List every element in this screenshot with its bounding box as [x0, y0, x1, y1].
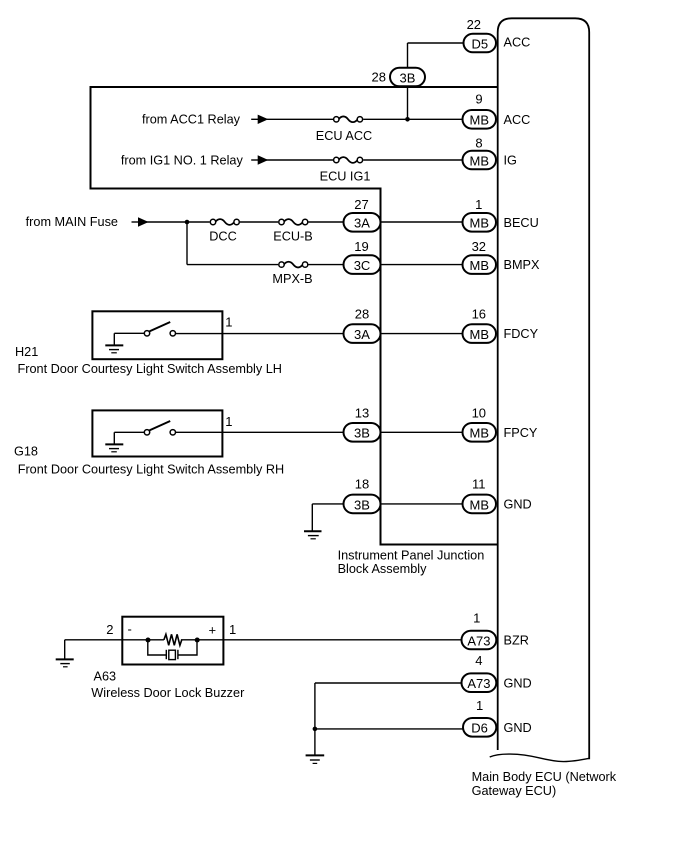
svg-text:1: 1	[225, 315, 232, 330]
connector 3C pin 19	[344, 255, 381, 274]
connector 3A pin 27	[344, 213, 381, 232]
svg-text:A73: A73	[467, 633, 490, 648]
svg-text:BMPX: BMPX	[504, 258, 540, 272]
ECU box wavy bottom edge	[490, 754, 590, 762]
svg-text:Gateway ECU): Gateway ECU)	[472, 784, 557, 798]
ground for buzzer	[64, 640, 66, 659]
svg-text:11: 11	[472, 477, 486, 492]
svg-text:D6: D6	[471, 721, 488, 736]
connector 3B pin 28 top	[390, 68, 425, 87]
fuse ECU-B	[284, 219, 303, 225]
svg-text:28: 28	[355, 307, 369, 322]
svg-text:-: -	[128, 622, 132, 637]
svg-text:ACC: ACC	[504, 113, 531, 127]
svg-text:16: 16	[472, 307, 486, 322]
connector D6 pin 1	[463, 718, 496, 737]
svg-text:from MAIN Fuse: from MAIN Fuse	[26, 215, 118, 229]
svg-text:H21: H21	[15, 345, 38, 359]
wire 3B to MB FPCY	[381, 431, 469, 433]
svg-text:MPX-B: MPX-B	[272, 272, 312, 286]
svg-text:Front Door Courtesy Light Swit: Front Door Courtesy Light Switch Assembl…	[18, 462, 285, 476]
svg-text:from IG1 NO. 1 Relay: from IG1 NO. 1 Relay	[121, 153, 244, 167]
buzzer A63 box	[122, 617, 223, 665]
piezo element branch	[148, 640, 197, 655]
node junction dot bottom ground	[313, 727, 318, 732]
wire ground to switch contact G18	[114, 431, 144, 433]
svg-text:2: 2	[106, 622, 113, 637]
arrow from IG1 NO.1 Relay	[251, 159, 260, 161]
svg-text:3A: 3A	[354, 215, 370, 230]
wire branch to MPX-B	[187, 264, 278, 266]
svg-text:1: 1	[225, 414, 232, 429]
svg-text:+: +	[209, 623, 217, 638]
svg-text:MB: MB	[470, 258, 490, 273]
switch H21 contacts	[144, 331, 149, 336]
wire through buzzer right	[181, 639, 224, 641]
svg-text:A73: A73	[467, 676, 490, 691]
connector 3B pin 13	[344, 423, 381, 442]
wire vertical MAIN branch	[186, 222, 188, 265]
wire to D6 GND pill	[315, 728, 468, 730]
svg-text:1: 1	[476, 698, 483, 713]
svg-text:ACC: ACC	[504, 36, 531, 50]
svg-text:9: 9	[475, 92, 482, 107]
connector A73 pin 1	[462, 631, 497, 650]
node dots in buzzer	[146, 638, 151, 643]
wire through buzzer left	[122, 639, 164, 641]
instrument panel junction block outline	[91, 87, 498, 545]
fuse DCC	[215, 219, 234, 225]
svg-text:MB: MB	[470, 113, 490, 128]
svg-text:GND: GND	[504, 721, 532, 735]
svg-text:DCC: DCC	[209, 230, 237, 244]
wire ACC from fuse to MB pill	[363, 118, 468, 120]
main body ECU box	[498, 18, 590, 759]
svg-text:Wireless Door Lock Buzzer: Wireless Door Lock Buzzer	[91, 686, 245, 700]
wire MPX-B to 3C pill	[308, 264, 348, 266]
svg-text:18: 18	[355, 477, 369, 492]
svg-text:MB: MB	[470, 327, 490, 342]
switch box G18	[92, 410, 222, 456]
fuse MPX-B	[284, 262, 303, 268]
wire DCC to ECU-B	[240, 221, 278, 223]
connector MB pin 16	[463, 324, 497, 343]
wire switch G18 to 3B pill	[176, 431, 348, 433]
svg-text:3B: 3B	[354, 497, 370, 512]
svg-text:Instrument Panel Junction: Instrument Panel Junction	[338, 548, 485, 562]
switch G18 contacts	[144, 430, 149, 435]
connector MB pin 32	[463, 255, 497, 274]
switch H21 blade	[149, 322, 170, 331]
svg-text:8: 8	[475, 135, 482, 150]
svg-text:Main Body ECU (Network: Main Body ECU (Network	[472, 770, 617, 784]
wire MAIN fuse to DCC	[146, 221, 210, 223]
svg-text:BZR: BZR	[504, 634, 529, 648]
svg-text:3C: 3C	[354, 258, 371, 273]
svg-text:ECU IG1: ECU IG1	[320, 170, 371, 184]
svg-text:10: 10	[472, 405, 486, 420]
svg-text:22: 22	[467, 17, 481, 32]
wire ground to switch contact	[114, 332, 144, 334]
wire to A73 GND pill	[315, 682, 468, 684]
svg-text:32: 32	[472, 239, 486, 254]
switch G18 blade	[149, 421, 170, 430]
ground for 3B GND	[304, 530, 322, 532]
svg-text:13: 13	[355, 405, 369, 420]
svg-text:3A: 3A	[354, 327, 370, 342]
wire ground to buzzer	[65, 639, 123, 641]
svg-text:GND: GND	[504, 498, 532, 512]
svg-text:Block Assembly: Block Assembly	[338, 562, 427, 576]
svg-text:A63: A63	[94, 670, 117, 684]
svg-text:G18: G18	[14, 445, 38, 459]
connector A73 pin 4	[462, 673, 497, 692]
ground in G18	[113, 432, 115, 444]
svg-text:BECU: BECU	[504, 216, 539, 230]
connector 3A pin 28	[344, 324, 381, 343]
svg-text:19: 19	[354, 239, 368, 254]
svg-text:3B: 3B	[354, 426, 370, 441]
resistor in buzzer	[164, 634, 182, 645]
svg-text:ECU-B: ECU-B	[273, 230, 312, 244]
node junction dot MAIN	[185, 220, 190, 225]
svg-text:MB: MB	[470, 497, 490, 512]
piezo element symbol	[165, 650, 167, 659]
svg-text:from ACC1 Relay: from ACC1 Relay	[142, 113, 241, 127]
connector D5 pin 22	[464, 34, 497, 53]
fuse ECU IG1	[339, 157, 358, 163]
arrow from ACC1 Relay	[251, 118, 260, 120]
svg-text:MB: MB	[470, 153, 490, 168]
node junction dot ACC	[405, 117, 410, 122]
wire 3C to MB BMPX	[381, 264, 469, 266]
svg-text:1: 1	[229, 622, 236, 637]
connector MB pin 9	[463, 110, 497, 129]
connector MB pin 8	[463, 151, 497, 170]
svg-text:3B: 3B	[400, 70, 416, 85]
wire vertical bottom ground	[314, 683, 316, 755]
wire vertical node to 3B and ACC wire	[407, 43, 409, 119]
connector MB pin 1	[463, 213, 497, 232]
svg-text:27: 27	[354, 197, 368, 212]
svg-text:GND: GND	[504, 676, 532, 690]
wire IG from arrow to fuse	[266, 159, 333, 161]
svg-text:MB: MB	[470, 426, 490, 441]
svg-text:ECU ACC: ECU ACC	[316, 129, 372, 143]
connector MB pin 10	[463, 423, 497, 442]
svg-text:1: 1	[473, 611, 480, 626]
ground in H21	[113, 333, 115, 345]
wire ECU-B to 3A pill	[308, 221, 348, 223]
svg-text:IG: IG	[504, 154, 517, 168]
wire buzzer to A73 pill	[223, 639, 468, 641]
wire switch H21 to 3A pill	[176, 333, 348, 335]
svg-text:FDCY: FDCY	[504, 327, 539, 341]
wire 3A to MB FDCY	[381, 333, 469, 335]
fuse ECU ACC	[339, 116, 358, 122]
connector 3B pin 18	[344, 495, 381, 514]
wire ground to 3B GND pill	[312, 503, 348, 505]
wire D5 horizontal	[408, 42, 471, 44]
connector MB pin 11	[463, 495, 497, 514]
svg-text:D5: D5	[471, 36, 488, 51]
wire IG from fuse to MB pill	[363, 159, 468, 161]
switch box H21	[92, 311, 222, 359]
ground bottom	[306, 754, 325, 756]
svg-text:Front Door Courtesy Light Swit: Front Door Courtesy Light Switch Assembl…	[18, 362, 282, 376]
wire 3A to MB BECU	[381, 221, 469, 223]
wire ACC from arrow to fuse	[266, 118, 333, 120]
wire 3B to MB GND	[381, 503, 469, 505]
svg-text:4: 4	[475, 653, 482, 668]
svg-text:FPCY: FPCY	[504, 426, 538, 440]
svg-text:1: 1	[475, 197, 482, 212]
svg-text:MB: MB	[470, 215, 490, 230]
arrow from MAIN Fuse	[132, 221, 141, 223]
svg-text:28: 28	[372, 70, 386, 85]
